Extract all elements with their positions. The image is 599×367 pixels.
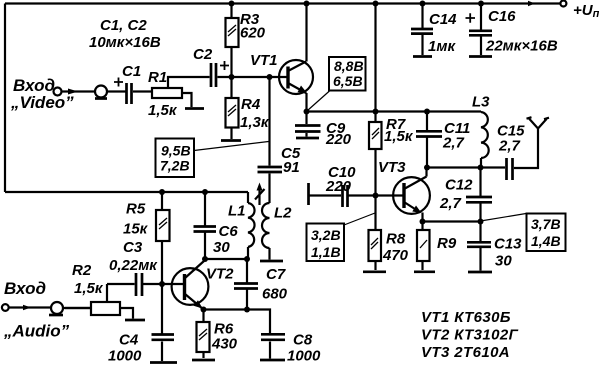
svg-text:1,4В: 1,4В	[531, 233, 561, 249]
svg-text:1,5к: 1,5к	[384, 128, 414, 145]
svg-text:2,7: 2,7	[498, 138, 521, 155]
svg-text:1,1В: 1,1В	[311, 244, 341, 260]
svg-text:VT1 КТ630Б: VT1 КТ630Б	[421, 309, 511, 326]
svg-text:22мк×16В: 22мк×16В	[485, 38, 558, 55]
svg-text:VT2: VT2	[206, 266, 234, 283]
svg-text:C1: C1	[122, 63, 141, 80]
svg-text:R2: R2	[72, 262, 92, 279]
svg-text:VT3 2Т610А: VT3 2Т610А	[421, 344, 510, 361]
svg-text:L3: L3	[472, 94, 490, 111]
svg-text:VT3: VT3	[378, 159, 406, 176]
svg-text:0,22мк: 0,22мк	[109, 257, 158, 274]
svg-text:1,5к: 1,5к	[74, 280, 104, 297]
svg-text:VT2 КТ3102Г: VT2 КТ3102Г	[421, 327, 519, 344]
svg-text:3,2В: 3,2В	[311, 227, 341, 243]
svg-text:1000: 1000	[108, 348, 142, 365]
svg-text:C6: C6	[219, 223, 239, 240]
svg-text:1мк: 1мк	[428, 38, 456, 55]
svg-text:„Video”: „Video”	[10, 93, 74, 112]
svg-text:8,8В: 8,8В	[334, 58, 364, 74]
svg-text:R5: R5	[126, 201, 146, 218]
svg-text:C8: C8	[293, 332, 313, 349]
svg-text:91: 91	[283, 159, 300, 176]
svg-text:2,7: 2,7	[439, 195, 462, 212]
svg-text:620: 620	[240, 25, 266, 42]
svg-text:C1, C2: C1, C2	[100, 17, 147, 34]
svg-text:1,5к: 1,5к	[148, 102, 178, 119]
svg-text:C7: C7	[266, 266, 286, 283]
svg-text:VT1: VT1	[250, 52, 278, 69]
svg-text:3,7В: 3,7В	[531, 216, 561, 232]
svg-text:C16: C16	[488, 8, 516, 25]
svg-text:R9: R9	[437, 235, 457, 252]
svg-text:220: 220	[325, 131, 352, 148]
svg-text:C12: C12	[445, 177, 473, 194]
svg-text:1000: 1000	[287, 348, 321, 365]
svg-text:C14: C14	[429, 11, 457, 28]
svg-text:1,3к: 1,3к	[240, 114, 270, 131]
svg-text:6,5В: 6,5В	[333, 73, 363, 89]
svg-text:L1: L1	[228, 203, 246, 220]
svg-text:C13: C13	[494, 236, 522, 253]
svg-text:30: 30	[213, 239, 230, 256]
svg-text:C3: C3	[123, 239, 143, 256]
svg-text:C4: C4	[119, 332, 139, 349]
svg-text:9,5В: 9,5В	[161, 143, 191, 159]
svg-text:Вход: Вход	[4, 279, 46, 298]
svg-text:R8: R8	[386, 231, 406, 248]
svg-text:2,7: 2,7	[442, 135, 465, 152]
svg-text:C2: C2	[193, 46, 213, 63]
svg-text:30: 30	[495, 253, 512, 270]
svg-text:430: 430	[211, 336, 238, 353]
svg-text:R4: R4	[241, 96, 261, 113]
svg-text:220: 220	[325, 178, 352, 195]
svg-text:7,2В: 7,2В	[160, 158, 190, 174]
svg-text:680: 680	[262, 286, 288, 303]
svg-text:R1: R1	[148, 69, 167, 86]
svg-text:10мк×16В: 10мк×16В	[89, 34, 161, 51]
svg-text:L2: L2	[274, 205, 292, 222]
svg-text:„Audio”: „Audio”	[3, 322, 70, 341]
svg-text:15к: 15к	[123, 221, 149, 238]
svg-text:470: 470	[382, 247, 409, 264]
